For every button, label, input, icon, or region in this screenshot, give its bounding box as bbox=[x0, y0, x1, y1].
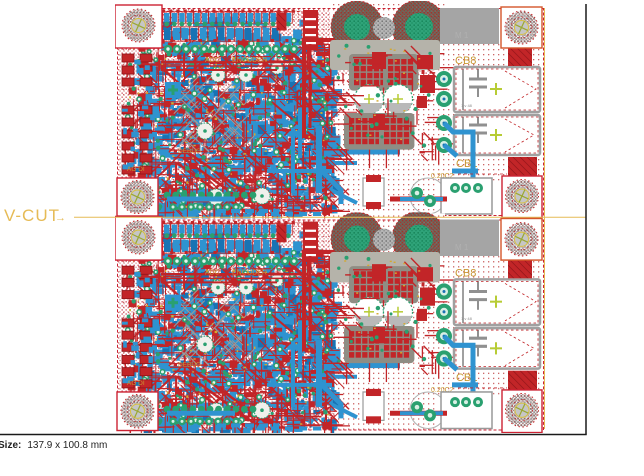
sheet border horizontal bbox=[0, 434, 587, 436]
PCB panel board 1 bbox=[115, 0, 544, 240]
svg-text:→: → bbox=[55, 212, 66, 224]
svg-text:V-CUT: V-CUT bbox=[4, 206, 60, 225]
sheet border vertical bbox=[585, 4, 587, 435]
panel right edge (yellow) bbox=[544, 8, 546, 429]
V-CUT line bbox=[74, 216, 586, 218]
svg-text:Size:137.9 x 100.8 mm: Size:137.9 x 100.8 mm bbox=[0, 440, 107, 451]
PCB panel board 2 bbox=[115, 211, 544, 454]
